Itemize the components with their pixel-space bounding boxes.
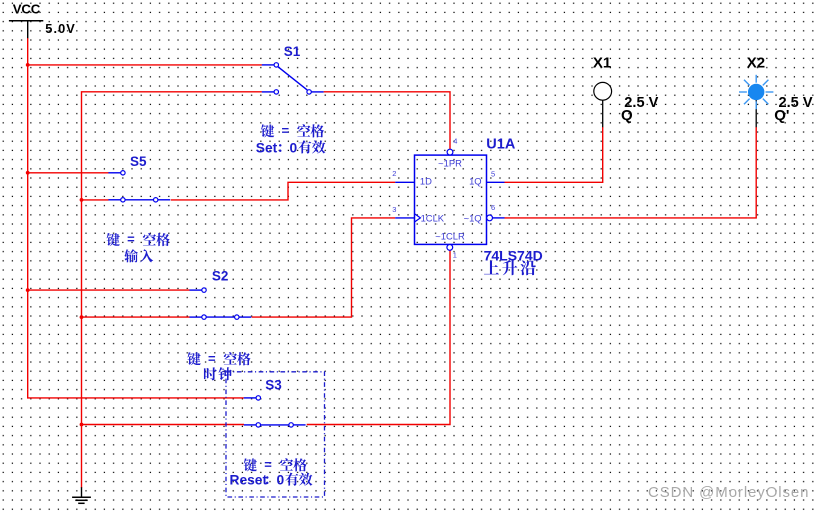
svg-text:S3: S3 (265, 378, 282, 393)
op-amp-style IC body U1A 74LS74D (395, 149, 504, 250)
svg-text:1Q: 1Q (469, 175, 482, 186)
svg-text:S5: S5 (130, 154, 147, 169)
svg-text:Reset: Reset (230, 473, 268, 488)
wire VCC to S1 top throw (28, 64, 262, 66)
label U1A (486, 137, 516, 153)
svg-text:Set: Set (256, 140, 278, 155)
svg-text:X2: X2 (747, 54, 765, 71)
wire GND to S3 bottom throw (82, 424, 245, 426)
svg-text:4: 4 (453, 136, 457, 145)
svg-text:X1: X1 (593, 54, 611, 71)
wire S2 common to U1A pin3 1CLK (252, 218, 396, 317)
junction GND rail / S2 feed (80, 315, 84, 319)
switch S1 (SPDT, blade to VCC throw) (262, 63, 324, 94)
label S1 (284, 44, 301, 59)
label S2 (212, 269, 229, 284)
svg-text:1D: 1D (420, 175, 432, 186)
annotation S5: 键 = 空格 (107, 232, 170, 247)
power source VCC 5.0V (9, 1, 76, 38)
svg-text:Q: Q (621, 107, 633, 124)
svg-text:~1Q: ~1Q (464, 212, 482, 223)
svg-text:U1A: U1A (486, 137, 516, 153)
svg-text:CSDN @MorleyOlsen: CSDN @MorleyOlsen (648, 484, 809, 501)
annotation S1: Set：0有效 (256, 140, 326, 155)
pin label 1D (420, 175, 432, 186)
probe X1 (lamp off, net Q) (594, 82, 612, 127)
svg-text:~1PR: ~1PR (438, 157, 462, 168)
svg-text:=: = (264, 457, 272, 472)
svg-text:=: = (282, 123, 290, 138)
switch S5 (SPDT) (108, 171, 170, 202)
pin number 1 (453, 250, 457, 259)
pin number 2 (392, 169, 396, 178)
svg-text:1CLK: 1CLK (421, 212, 445, 223)
label X1 (593, 54, 611, 71)
pin label ~1CLR (435, 230, 465, 241)
wire VCC to S5 top throw (28, 172, 109, 174)
wire GND to S5 bottom throw (82, 199, 109, 201)
switch S2 (SPDT) (190, 288, 252, 319)
svg-text:6: 6 (491, 203, 495, 212)
svg-text:S2: S2 (212, 269, 229, 284)
label 2.5 V (X1) (624, 95, 658, 111)
junction VCC rail / S1 feed (26, 63, 30, 67)
junction VCC rail / S5 feed (26, 171, 30, 175)
pin number 6 (491, 203, 495, 212)
svg-text:VCC: VCC (13, 1, 41, 16)
label 2.5 V (X2) (779, 95, 813, 111)
junction GND rail / S5 feed (80, 198, 84, 202)
label 上升沿 (rising edge) (484, 260, 536, 275)
wire U1A pin6 ~1Q to probe X2 (net Q') (505, 127, 757, 218)
wire S5 common to U1A pin2 1D (171, 182, 395, 200)
wire ground rail vertical (net GND) (82, 92, 262, 488)
junction VCC rail / S2 feed (26, 288, 30, 292)
svg-text:5.0V: 5.0V (45, 21, 76, 36)
label S3 (265, 378, 282, 393)
annotation S1: 键 = 空格 (261, 123, 324, 138)
wire GND to S2 bottom throw (82, 316, 190, 318)
label S5 (130, 154, 147, 169)
annotation S2: 时钟 (204, 367, 232, 380)
wire S3 common to U1A pin1 ~1CLR (307, 250, 450, 424)
label 74LS74D (484, 247, 543, 263)
svg-text:3: 3 (392, 205, 396, 214)
svg-text:Q': Q' (774, 107, 789, 124)
pin label ~1PR (438, 157, 462, 168)
junction GND rail / S3 feed (80, 423, 84, 427)
pin number 4 (453, 136, 457, 145)
label Q (621, 107, 633, 124)
svg-text:0: 0 (277, 473, 285, 488)
probe X2 (lamp on, net Q') (739, 75, 773, 127)
svg-text:=: = (127, 232, 135, 247)
pin number 3 (392, 205, 396, 214)
svg-text:S1: S1 (284, 44, 301, 59)
annotation S5: 输入 (124, 249, 153, 262)
svg-text:1: 1 (453, 250, 457, 259)
pin label 1Q (469, 175, 482, 186)
wire VCC rail vertical (net VCC) (28, 38, 244, 398)
svg-text:5: 5 (491, 169, 495, 178)
wire VCC to S2 top throw (28, 289, 190, 291)
wire S1 common to U1A pin4 ~1PR (324, 92, 450, 149)
svg-text:=: = (208, 351, 216, 366)
switch S3 (SPDT) (244, 396, 306, 427)
annotation S3: 键 = 空格 (244, 457, 307, 472)
selection box around S3 (226, 372, 325, 497)
svg-text:2: 2 (392, 169, 396, 178)
pin label 1CLK (421, 212, 445, 223)
wire U1A pin5 1Q to probe X1 (net Q) (505, 127, 603, 182)
svg-text:~1CLR: ~1CLR (435, 230, 465, 241)
label X2 (747, 54, 765, 71)
pin number 5 (491, 169, 495, 178)
pin label ~1Q (464, 212, 482, 223)
annotation S3: Reset：0有效 (230, 473, 313, 488)
annotation S2: 键 = 空格 (187, 351, 250, 366)
watermark CSDN @MorleyOlsen (648, 484, 809, 501)
svg-text:0: 0 (290, 140, 298, 155)
ground (72, 487, 91, 503)
label Q' (774, 107, 789, 124)
